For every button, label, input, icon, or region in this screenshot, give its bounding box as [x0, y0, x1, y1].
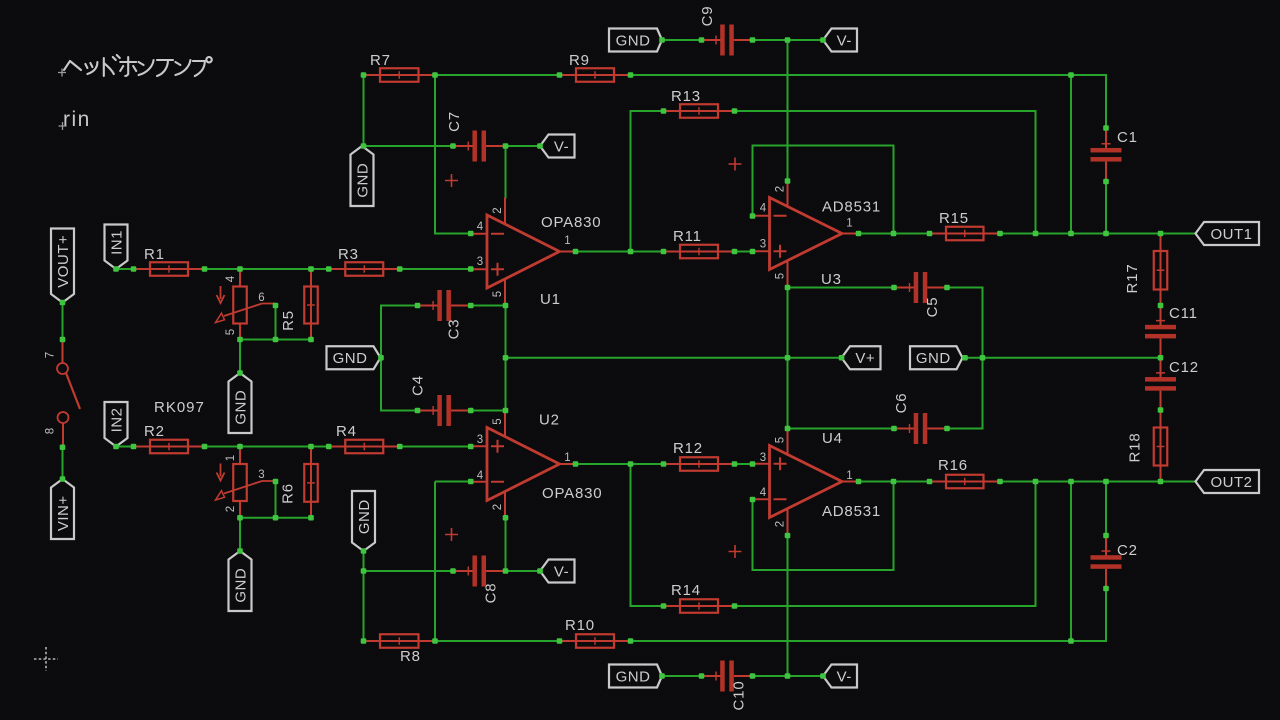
wire U2 pin4 down to R8 right [434, 482, 436, 642]
wire U3 pin5 to C5 [788, 287, 895, 289]
junctions C8 row [361, 548, 367, 554]
junctions pot2 [273, 479, 279, 485]
svg-text:GND: GND [356, 499, 373, 534]
svg-text:R10: R10 [565, 617, 595, 634]
wire C7 to V- [506, 145, 541, 147]
flag GND C3C4 [327, 346, 381, 369]
svg-text:R4: R4 [336, 423, 357, 440]
svg-text:1: 1 [225, 455, 237, 461]
svg-text:2: 2 [775, 186, 787, 192]
wire U4 pin2 to V- bottom [787, 536, 789, 677]
svg-text:IN2: IN2 [108, 408, 125, 433]
svg-text:5: 5 [492, 418, 504, 424]
svg-text:R15: R15 [939, 210, 969, 227]
svg-text:1: 1 [564, 452, 570, 464]
svg-text:R9: R9 [569, 52, 590, 69]
wire R15 to OUT1 [1000, 233, 1196, 235]
svg-text:AD8531: AD8531 [822, 199, 881, 216]
flag GND pot2 [229, 551, 252, 611]
svg-text:C12: C12 [1169, 359, 1199, 376]
resistor R3 [329, 246, 400, 276]
resistor R13 [664, 88, 735, 118]
junctions C7 row [361, 143, 367, 149]
resistor R8 [364, 634, 436, 665]
svg-text:C5: C5 [924, 297, 941, 318]
svg-text:3: 3 [760, 239, 766, 251]
wire C10 to V- [753, 675, 824, 677]
svg-text:R7: R7 [370, 52, 391, 69]
capacitor C12 [1145, 358, 1199, 410]
wire C8 to V- [506, 570, 541, 572]
resistor R18 [1127, 410, 1168, 482]
svg-text:4: 4 [760, 487, 767, 499]
wire U2 out to R12 [576, 463, 664, 465]
op-amp U1 OPA830 [471, 198, 577, 306]
svg-text:R6: R6 [280, 483, 297, 504]
potentiometer RK097-A pins 4,5,6 [216, 269, 276, 340]
svg-text:IN1: IN1 [108, 230, 125, 255]
svg-text:R3: R3 [338, 246, 359, 263]
svg-text:V-: V- [837, 668, 852, 685]
svg-text:OPA830: OPA830 [542, 485, 602, 502]
wire GND5 down to R8 [363, 551, 365, 641]
svg-text:C7: C7 [446, 111, 463, 132]
wire pot1 wiper down [275, 306, 277, 340]
svg-text:C9: C9 [699, 6, 716, 27]
svg-text:4: 4 [760, 203, 767, 215]
wire R13 left down to U1 out [631, 111, 664, 252]
wire pot2 bottom [240, 517, 311, 519]
svg-text:3: 3 [760, 452, 766, 464]
svg-text:3: 3 [258, 469, 264, 481]
wire R1 to R3 [205, 268, 329, 270]
svg-text:GND: GND [616, 32, 651, 49]
op-amp U2 OPA830 [471, 410, 577, 518]
resistor R12 [664, 440, 735, 471]
junctions R14 [661, 603, 667, 609]
svg-text:7: 7 [45, 352, 57, 358]
svg-text:V+: V+ [855, 350, 875, 367]
flag IN1 [105, 225, 128, 270]
svg-text:R1: R1 [144, 246, 165, 263]
junctions OUT1 row [856, 231, 862, 237]
wire U3 pin5 to U4 pin5 [787, 288, 789, 429]
svg-text:R16: R16 [938, 457, 968, 474]
wire R7 to R9 [435, 74, 560, 76]
flag V+ [842, 346, 881, 369]
junctions top rail [361, 72, 367, 78]
svg-text:GND: GND [232, 568, 249, 603]
wire top rail drop to OUT1 [1070, 75, 1072, 234]
svg-text:R5: R5 [280, 310, 297, 331]
svg-text:4: 4 [225, 275, 237, 282]
resistor R5 [280, 269, 318, 340]
svg-text:C3: C3 [446, 319, 463, 340]
wire R2 to R4 [205, 446, 329, 448]
svg-text:C6: C6 [893, 393, 910, 414]
junctions C10 row [659, 673, 665, 679]
wire C7 to U1 pin2 [505, 146, 507, 199]
wire GND3 up to R7 [363, 75, 365, 146]
flag V- C7 [540, 135, 575, 158]
cursor crosshair [34, 647, 58, 671]
svg-text:OPA830: OPA830 [541, 214, 601, 231]
flag V- top [823, 29, 857, 52]
svg-text:R18: R18 [1127, 433, 1144, 463]
wire GND7 to C11 C12 [965, 357, 1161, 359]
flag V- C8 [540, 560, 575, 583]
flag GND R8 [352, 491, 375, 551]
svg-text:5: 5 [492, 291, 504, 297]
junctions V+ rail / C5 [785, 285, 791, 291]
switch SW pins 7,8 [45, 340, 81, 448]
svg-text:U4: U4 [822, 430, 843, 447]
svg-text:4: 4 [477, 221, 484, 233]
wire GND5 to C8 [364, 570, 454, 572]
flag V- bottom [823, 665, 857, 688]
svg-text:1: 1 [846, 470, 852, 482]
resistor R6 [280, 447, 318, 518]
svg-text:R17: R17 [1124, 264, 1141, 294]
junctions C9 row [785, 37, 791, 43]
svg-text:U1: U1 [540, 291, 561, 308]
resistor R15 [930, 210, 1001, 240]
junctions C1 R17 [1103, 125, 1109, 131]
wire pot1 bottom [240, 339, 311, 341]
wire C4 right [471, 410, 506, 412]
junctions U1 out / U3 in [573, 249, 579, 255]
wire GND6 to C9 [662, 39, 702, 41]
capacitor C9 [699, 6, 752, 56]
junctions U2 out / U4 in [573, 461, 579, 467]
wire V- rail to U3 pin2 [787, 40, 789, 181]
flag GND top [609, 29, 662, 52]
capacitor C3 [418, 290, 471, 339]
wire VOUT+ to switch [62, 303, 64, 340]
wire U4 feedback loop [753, 482, 894, 571]
svg-text:U3: U3 [821, 271, 842, 288]
flag IN2 [105, 402, 128, 447]
potentiometer RK097-B pins 1,2,3 [216, 447, 276, 518]
wire R13 right to OUT1 [735, 111, 1036, 234]
wire OUT2 to C2 [1105, 482, 1107, 536]
wire C1 to OUT1 [1105, 182, 1107, 234]
svg-text:OUT2: OUT2 [1210, 474, 1252, 491]
wire R11 to U3 pin3 [735, 251, 753, 253]
wire R14 left up to U2 out [631, 464, 664, 606]
flag VOUT+ [51, 229, 74, 303]
capacitor C7 [446, 111, 505, 161]
svg-text:R13: R13 [671, 88, 701, 105]
svg-text:VIN+: VIN+ [55, 495, 72, 531]
op-amp U3 AD8531 [753, 180, 859, 287]
wire pot1 to GND [239, 340, 241, 374]
svg-text:4: 4 [477, 470, 484, 482]
svg-text:5: 5 [775, 437, 787, 443]
wire GND3 to C7 [364, 145, 454, 147]
wire U2 pin2 to C8 [505, 518, 507, 571]
svg-text:V-: V- [554, 138, 569, 155]
junctions GND mid [962, 355, 968, 361]
wire pot2 wiper down [275, 482, 277, 518]
wire U3 out to R15 [859, 233, 930, 235]
svg-text:OUT1: OUT1 [1210, 226, 1252, 243]
svg-text:2: 2 [492, 504, 504, 510]
svg-text:2: 2 [225, 506, 237, 512]
svg-text:1: 1 [564, 235, 570, 247]
resistor R9 [560, 52, 631, 82]
wire IN1 to R1 [116, 268, 134, 270]
flag GND bottom [609, 665, 662, 688]
wire R10 to C2 bottom rail [631, 589, 1107, 642]
svg-text:C11: C11 [1169, 305, 1198, 322]
svg-text:8: 8 [45, 428, 57, 434]
resistor R17 [1124, 234, 1167, 306]
wire R8 to R10 [435, 640, 560, 642]
svg-text:V-: V- [554, 563, 569, 580]
junctions VOUT/VIN chain [60, 300, 66, 306]
svg-text:C2: C2 [1117, 542, 1138, 559]
svg-text:6: 6 [258, 292, 264, 304]
junctions U2 pins [468, 479, 474, 485]
svg-text:GND: GND [354, 163, 371, 198]
resistor R2 [134, 423, 205, 453]
svg-text:3: 3 [477, 434, 483, 446]
resistor R11 [664, 228, 735, 258]
wire GND8 to C10 [662, 675, 702, 677]
junctions pot1 [273, 303, 279, 309]
flag GND pot1 [229, 373, 252, 433]
wire pot2 to GND [239, 518, 241, 551]
wire OUT2 drop to bottom rail [1070, 482, 1072, 642]
svg-text:R12: R12 [673, 440, 703, 457]
svg-text:3: 3 [477, 256, 483, 268]
wire GND4 loop C3 C4 [381, 306, 418, 411]
wire U4 out to R16 [859, 481, 930, 483]
wire R3 to U1 pin3 [400, 268, 471, 270]
op-amp U4 AD8531 [753, 428, 859, 535]
svg-text:rin: rin [63, 108, 91, 131]
svg-text:5: 5 [775, 273, 787, 279]
svg-text:R2: R2 [144, 423, 165, 440]
svg-text:GND: GND [916, 350, 951, 367]
junctions IN1 row [113, 266, 119, 272]
wire U3 feedback loop [753, 146, 894, 234]
svg-text:R14: R14 [671, 582, 701, 599]
junctions bottom rail [361, 638, 367, 644]
junctions IN2 row [113, 444, 119, 450]
svg-text:2: 2 [775, 521, 787, 527]
wire V+ rail [506, 357, 842, 359]
wire R16 to OUT2 [1000, 481, 1196, 483]
junctions U1/C3/C4 [468, 231, 474, 237]
svg-text:C4: C4 [410, 375, 427, 396]
wire IN2 to R2 [116, 446, 134, 448]
wire C5 C6 right loop [947, 288, 983, 429]
resistor R14 [664, 582, 735, 613]
junctions C2 R18 [1103, 533, 1109, 539]
svg-text:C8: C8 [483, 583, 500, 604]
resistor R10 [560, 617, 631, 648]
title heddohon-anpu (katakana, drawn as paths) [64, 61, 81, 70]
capacitor C1 [1091, 128, 1138, 182]
svg-text:GND: GND [616, 668, 651, 685]
svg-text:1: 1 [846, 218, 852, 230]
svg-text:U2: U2 [539, 412, 560, 429]
resistor R4 [329, 423, 400, 453]
svg-text:C1: C1 [1117, 129, 1138, 146]
svg-text:5: 5 [225, 329, 237, 335]
wire R9 to C1 top rail [631, 75, 1107, 128]
flag VIN+ [51, 479, 74, 539]
wire R4 to U2 pin3 [400, 446, 471, 448]
wire C9 to V- [753, 39, 824, 41]
svg-text:R8: R8 [400, 648, 421, 665]
junctions C6 row [785, 426, 791, 432]
flag GND R7 [351, 146, 374, 206]
svg-text:C10: C10 [731, 681, 748, 711]
capacitor C6 [893, 393, 947, 444]
capacitor C8 [453, 556, 506, 604]
svg-text:GND: GND [232, 390, 249, 425]
wire U1 pin5 to U2 pin5 [505, 306, 507, 411]
resistor R7 [364, 52, 436, 82]
svg-text:V-: V- [837, 32, 852, 49]
wire R14 right to OUT2 [735, 482, 1036, 607]
flag OUT2 [1196, 470, 1260, 493]
capacitor C10 [702, 661, 753, 711]
capacitor C2 [1091, 536, 1138, 589]
svg-text:2: 2 [492, 207, 504, 213]
flag OUT1 [1196, 222, 1260, 245]
wire R7 right to U1 pin4 [435, 75, 471, 234]
wire U1 out to R11 [576, 251, 664, 253]
svg-text:VOUT+: VOUT+ [55, 235, 72, 288]
capacitor C4 [410, 375, 471, 426]
wire U4 pin5 to C6 [788, 428, 895, 430]
capacitor C5 [894, 272, 947, 317]
wire switch to VIN+ [62, 447, 64, 479]
svg-text:GND: GND [333, 350, 368, 367]
svg-text:AD8531: AD8531 [822, 503, 881, 520]
resistor R1 [134, 246, 205, 276]
junctions R13 [661, 108, 667, 114]
capacitor C11 [1145, 305, 1198, 358]
wire R12 to U4 pin3 [735, 463, 753, 465]
junctions OUT2 row [856, 479, 862, 485]
flag GND mid [910, 346, 963, 369]
svg-text:R11: R11 [673, 228, 702, 245]
svg-text:RK097: RK097 [154, 399, 205, 416]
resistor R16 [930, 457, 1001, 488]
wire C3 right [471, 305, 506, 307]
wire U2 pin4 [435, 481, 471, 483]
